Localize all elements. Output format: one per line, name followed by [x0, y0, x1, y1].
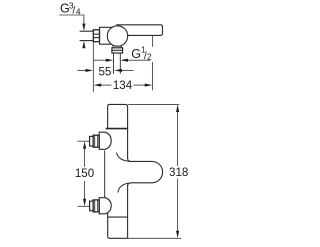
nut facet line upper	[93, 33, 99, 35]
svg-text:150: 150	[75, 167, 94, 180]
outlet neck below circle	[113, 45, 121, 48]
dim 134 right arrowhead	[145, 84, 153, 87]
outlet collar inner line	[112, 49, 123, 51]
dim 318 bottom arrowhead (down)	[176, 231, 179, 239]
dim 150 extension top	[78, 140, 90, 142]
svg-text:134: 134	[113, 79, 133, 92]
top union nut facet right	[97, 135, 99, 147]
label G1/2	[131, 45, 152, 62]
dim 318 top arrowhead (up)	[176, 104, 179, 112]
extension line B (spout end, top view) upper part	[151, 36, 153, 47]
dim 150 line upper	[84, 149, 86, 167]
separation line under cap	[106, 128, 128, 130]
connection block (top view)	[100, 27, 112, 44]
G1/2 left arrowhead (right)	[106, 59, 114, 62]
top union nut facet left	[94, 135, 96, 147]
thermostat head circle (top view)	[107, 26, 127, 46]
hose curve lower (tangent arc from holder bottom)	[118, 183, 131, 193]
G3/4 leader line	[59, 15, 84, 25]
dim 134 left shaft	[101, 84, 112, 86]
G3/4 lower arrowhead (up)	[82, 41, 85, 48]
svg-text:318: 318	[169, 166, 188, 179]
svg-text:2: 2	[147, 52, 152, 62]
body right outline with hook (shower-hose holder)	[128, 129, 163, 239]
hose curve upper (tangent arc into holder top)	[117, 153, 132, 162]
union nut (top view)	[93, 30, 99, 42]
G3/4 lower arrow shaft	[83, 44, 85, 48]
dim 318 line upper	[177, 112, 179, 167]
dim 134 left arrowhead	[94, 84, 102, 87]
top union nut	[93, 135, 99, 147]
spout tube (top view)	[116, 25, 162, 36]
top union collar	[90, 136, 94, 146]
lower body left edge below union	[108, 212, 128, 239]
sleeve left edge between the unions	[104, 151, 106, 198]
extension line A (nut face, top view)	[92, 42, 94, 92]
G1/2 left arrow shaft	[93, 59, 106, 61]
wire: outlet pipe right line	[119, 53, 121, 74]
label G3/4	[60, 0, 81, 16]
dim 55 right shaft	[122, 69, 134, 71]
wire: outlet pipe left line	[113, 53, 115, 74]
nut facet line lower	[93, 37, 99, 39]
svg-text:4: 4	[76, 6, 81, 16]
outlet collar	[112, 48, 123, 53]
dim 134 right shaft	[134, 84, 147, 86]
dim 150 line lower	[84, 181, 86, 199]
bottom union collar	[90, 201, 94, 211]
G1/2 leader underline	[128, 59, 151, 61]
dim 150 top arrowhead (up)	[83, 141, 86, 149]
dim 318 line lower	[177, 179, 179, 232]
wire: inlet pipe G3/4 top line	[80, 30, 94, 32]
dim 150 extension bottom	[78, 205, 90, 207]
bottom union nut facet right	[97, 200, 99, 212]
svg-text:G: G	[131, 47, 141, 61]
top union dome	[99, 132, 111, 149]
extension line B lower part	[151, 62, 153, 90]
dim 150 bottom arrowhead (down)	[83, 199, 86, 207]
dim 318 extension top (cap top edge extended)	[128, 103, 179, 105]
bottom union nut	[93, 200, 99, 212]
dim 55 right arrowhead (left, outside)	[114, 69, 122, 72]
dim 55 left shaft	[77, 69, 85, 71]
dim 55 left arrowhead (right, outside)	[86, 69, 94, 72]
wire: inlet pipe G3/4 bottom line	[80, 40, 94, 42]
dim 318 extension bottom	[128, 237, 182, 239]
internal step line above foot	[108, 216, 128, 218]
bottom union dome	[99, 198, 111, 214]
G1/2 right arrowhead (left)	[120, 59, 128, 62]
G3/4 upper arrowhead (down)	[82, 24, 85, 31]
bottom union nut facet left	[94, 200, 96, 212]
svg-text:55: 55	[98, 66, 111, 79]
cap (head) rectangle of body	[108, 104, 128, 128]
